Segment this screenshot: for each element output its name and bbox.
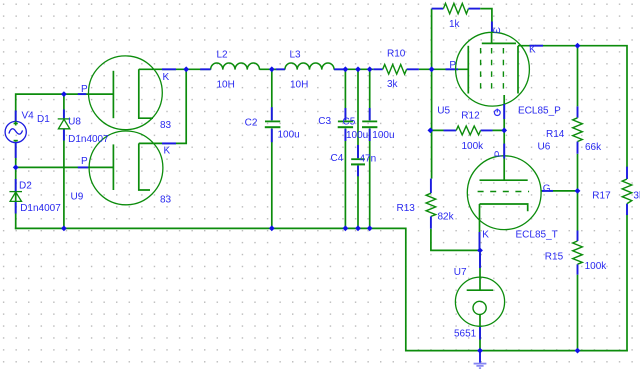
wire bottom-left rail: [16, 228, 627, 350]
svg-text:G: G: [543, 183, 551, 194]
wire middle rail P net of lower tube: [16, 143, 113, 168]
wire top-left rail P net: [16, 94, 113, 121]
svg-text:D2: D2: [19, 180, 32, 191]
svg-text:D1n4007: D1n4007: [20, 203, 61, 214]
resistor R13 82k: [430, 179, 432, 194]
AC source V4: [5, 111, 26, 159]
svg-text:10H: 10H: [217, 79, 235, 90]
svg-text:47n: 47n: [360, 154, 377, 165]
svg-text:C2: C2: [245, 117, 258, 128]
diode U8 (D1): [58, 119, 71, 129]
svg-text:U8: U8: [68, 116, 81, 127]
capacitor C4: [357, 69, 359, 158]
svg-text:U5: U5: [437, 106, 450, 117]
svg-text:83: 83: [160, 195, 172, 206]
svg-text:R12: R12: [461, 111, 480, 122]
inductor L3: [285, 63, 334, 70]
triode U6 ECL85_T: [467, 130, 541, 250]
capacitor C3: [344, 69, 346, 120]
wire diode U8 branch: [63, 94, 65, 228]
wire K of upper 83 to node: [139, 68, 201, 70]
resistor R15 100k: [577, 231, 579, 275]
svg-text:D1: D1: [37, 114, 50, 125]
wire P pin of pentode: [444, 68, 468, 70]
svg-text:ECL85_P: ECL85_P: [518, 106, 561, 117]
svg-text:C4: C4: [331, 153, 344, 164]
ground: [479, 351, 481, 363]
svg-text:R10: R10: [387, 49, 406, 60]
pentode U5 ECL85_P: [456, 32, 530, 106]
svg-text:66k: 66k: [585, 142, 602, 153]
svg-text:K: K: [529, 44, 536, 55]
svg-text:5651: 5651: [454, 329, 477, 340]
wire R14 R15 column: [577, 46, 579, 351]
svg-text:P: P: [81, 156, 88, 167]
svg-text:ω: ω: [493, 25, 501, 36]
svg-text:1k: 1k: [449, 19, 461, 30]
svg-text:K: K: [482, 229, 489, 240]
svg-text:3k: 3k: [633, 191, 640, 202]
wire right edge lower segment: [626, 215, 628, 351]
svg-text:100k: 100k: [462, 141, 485, 152]
svg-text:R15: R15: [545, 252, 564, 263]
svg-text:100u: 100u: [278, 130, 300, 141]
svg-text:L3: L3: [290, 49, 302, 60]
junction nodes (diamonds): [13, 43, 581, 354]
svg-text:P: P: [81, 84, 88, 95]
blue pin lead P lower: [78, 166, 88, 168]
resistor R14 66k: [577, 106, 579, 153]
capacitor C2: [271, 69, 273, 120]
svg-text:83: 83: [160, 120, 172, 131]
svg-text:K: K: [163, 72, 170, 83]
svg-text:100k: 100k: [585, 261, 608, 272]
svg-text:3k: 3k: [387, 79, 399, 90]
svg-text:K: K: [164, 146, 171, 157]
svg-text:P: P: [494, 150, 505, 157]
wire K node to U7: [479, 250, 481, 277]
tube U8 (83) upper: [89, 56, 163, 130]
svg-text:R17: R17: [592, 191, 611, 202]
wire pentode g1 pin down to R12 node: [503, 95, 505, 130]
capacitor C5: [369, 69, 371, 120]
svg-text:U6: U6: [538, 142, 551, 153]
svg-text:100u: 100u: [346, 130, 368, 141]
svg-text:10H: 10H: [290, 80, 308, 91]
svg-text:100u: 100u: [372, 130, 394, 141]
svg-text:C5: C5: [343, 116, 356, 127]
resistor R17: [626, 167, 628, 215]
tube U7 5651: [455, 277, 504, 351]
diode D2: [9, 192, 22, 202]
svg-text:82k: 82k: [438, 211, 455, 222]
svg-text:R14: R14: [546, 129, 565, 140]
svg-text:P: P: [449, 60, 456, 71]
svg-text:V4: V4: [22, 111, 35, 122]
resistor R11 1k feedback loop: [431, 9, 433, 70]
wire G of triode to R14/R15 node: [541, 190, 578, 192]
power-style pin glyph: [494, 109, 500, 116]
wire K of pentode to right rail: [518, 45, 536, 47]
svg-text:L2: L2: [217, 49, 229, 60]
blue pin lead P upper: [78, 93, 87, 95]
wire right edge upper segment and top-right rail: [536, 46, 627, 167]
tube U9 (83) lower: [89, 131, 163, 205]
resistor R10: [373, 68, 419, 70]
svg-text:D1n4007: D1n4007: [68, 134, 109, 145]
wire K of lower 83 up to K node: [139, 69, 186, 143]
resistor R12: [430, 129, 504, 131]
wire left column D2 branch to bottom rail: [15, 167, 17, 228]
svg-text:R13: R13: [397, 203, 416, 214]
svg-text:ECL85_T: ECL85_T: [516, 230, 558, 241]
inductor L2: [211, 63, 260, 70]
wire P node vertical (1k left + down to R12/R13): [431, 69, 433, 178]
svg-text:U7: U7: [454, 267, 467, 278]
svg-text:C3: C3: [318, 116, 331, 127]
svg-text:U9: U9: [71, 192, 84, 203]
